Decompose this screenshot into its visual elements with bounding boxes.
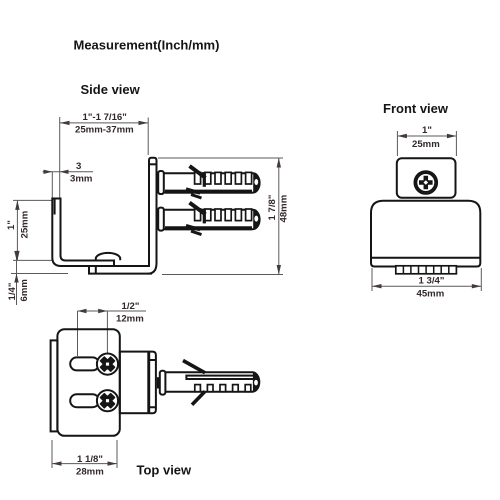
anchor1 slot 6 [246,172,252,184]
front screw phillips cross [419,176,433,190]
arrow left of top dim [60,121,70,125]
dim 1 1/8"/28mm line [52,463,117,465]
anchor2 bottom thick edge [165,226,252,230]
svg-text:6mm: 6mm [19,279,30,301]
extension line left of top dim [59,117,61,198]
anchor1 wing diagonal [190,166,206,178]
arrow right 28mm [108,461,118,465]
svg-text:1 7/8": 1 7/8" [267,195,278,221]
front rib comb band [396,266,457,274]
extension right 28mm [116,440,118,468]
arrow right 25mm [447,134,457,138]
arrow up 1" [15,200,19,210]
anchor2 slot 5 [235,209,241,221]
top anchor nub [157,377,160,388]
arrow left 28mm [52,461,62,465]
svg-text:3: 3 [76,161,81,172]
arrow 12mm right [98,309,107,313]
front upper box [397,158,456,198]
dim top width line [60,122,148,124]
dim 1/2"/12mm line [78,310,147,312]
svg-text:1"-1 7/16": 1"-1 7/16" [83,112,127,123]
extension line foot bottom [11,273,68,275]
svg-text:1 1/8": 1 1/8" [77,454,103,465]
svg-text:1 3/4": 1 3/4" [419,276,445,287]
extension left 28mm [51,440,53,468]
anchor1 screw head bar [158,171,164,194]
svg-text:Top view: Top view [137,463,193,478]
top anchor notch 4 [233,385,239,392]
top anchor tip white dot [254,380,258,386]
anchor2 tip cap [253,209,260,230]
extension right 25mm [455,131,457,156]
svg-text:25mm: 25mm [20,211,31,239]
top anchor notch 1 [195,385,201,392]
arrow 3mm left [44,170,53,174]
top view cap [149,352,156,414]
anchor1 lower wing [186,189,200,193]
svg-text:Measurement(Inch/mm): Measurement(Inch/mm) [74,38,220,53]
dim 3mm line [43,171,94,173]
anchor1 bottom thick edge [165,190,252,194]
wall vertical plate [148,158,157,274]
anchor 2 group [156,203,261,235]
anchor2 slot 6 [246,209,252,221]
extension line base top left [13,259,52,261]
screw dome on base [96,253,120,260]
extension 12mm left [77,311,79,356]
anchor1 tip cap [253,173,260,194]
dim 1 7/8"/48mm vertical line [278,158,280,275]
wall top cap line [149,163,157,165]
front rib divider 7 [448,266,450,274]
anchor2 screw head bar [158,208,164,231]
anchor2 slot 3 [215,209,221,221]
dim 1"/25mm line [397,135,456,137]
extension left 25mm [396,131,398,156]
arrow down to base top [14,251,18,260]
anchor1 nub [156,177,159,188]
anchor1 slot 4 [225,172,231,184]
top anchor notch 2 [207,385,213,392]
anchor1 tip white dot [254,179,258,185]
anchor2 tip white dot [254,216,258,222]
top anchor notch 5 [245,385,251,392]
top view main plate [57,329,119,436]
top screw 2 circle [97,390,118,411]
top anchor body [165,372,259,391]
anchor1 slot 2 [205,172,211,184]
top anchor inner stripe [186,376,256,379]
anchor2 slot 2 [205,209,211,221]
svg-text:1": 1" [6,220,17,230]
extension line bottom foot to dim [162,274,283,276]
svg-text:Front view: Front view [383,101,449,116]
arrow 12mm left [78,309,87,313]
top anchor lower wing [192,391,205,404]
arrow left 45mm [372,284,382,288]
arrow 3mm right [60,170,69,174]
arrow right 45mm [472,284,482,288]
svg-text:12mm: 12mm [116,314,144,325]
anchor1 body [164,173,260,192]
front rib divider 5 [433,266,435,274]
top screw 1 cross [97,354,117,374]
front body [371,201,480,267]
front rib divider 4 [425,266,427,274]
anchor2 slot 1 [195,209,201,221]
front screw center notch [424,180,429,185]
front rib divider 1 [402,266,404,274]
top screw 1 circle [97,354,118,375]
arrow down 1" [15,251,19,261]
extension left 45mm [371,268,373,291]
svg-text:25mm: 25mm [412,139,440,150]
top anchor tip cap [253,372,260,393]
top view boss [120,352,149,414]
front screw outer circle [415,171,438,194]
svg-text:1": 1" [422,125,432,136]
svg-text:Side view: Side view [81,82,141,97]
arrow up to foot bottom [14,274,18,283]
svg-text:45mm: 45mm [417,289,445,300]
extension line top of wall to dim [158,157,283,159]
anchor2 lower wing [186,226,200,230]
front rib divider 3 [418,266,420,274]
top screw 2 cross [97,391,117,411]
plate inner edge [61,198,115,267]
extension line 3mm [51,172,53,198]
svg-text:1/2": 1/2" [122,301,140,312]
anchor1 lower fin [191,195,202,199]
top anchor notch 3 [220,385,226,392]
svg-text:25mm-37mm: 25mm-37mm [75,125,134,136]
extension line top plate [13,199,52,201]
svg-text:3mm: 3mm [70,174,92,185]
L-bracket left plate [52,199,89,267]
anchor2 wing bar [203,209,206,224]
front body bottom band line [371,257,480,259]
dim 1 3/4"/45mm line [372,285,481,287]
dim 1/4"/6mm line [16,252,18,305]
arrow left 25mm [397,134,407,138]
extension line right of top dim [147,118,149,156]
anchor1 slot 5 [235,172,241,184]
arrow down 48mm [277,265,281,275]
svg-text:28mm: 28mm [76,466,104,477]
top view slot 1 [70,357,99,370]
anchor 1 group [156,166,261,198]
foot lower strip [89,266,152,274]
top view left flange [51,340,58,431]
top view slot 2 [70,394,99,407]
anchor1 wing bar [203,172,206,187]
top anchor head bar [160,371,166,395]
arrow right of top dim [139,121,149,125]
anchor2 lower fin [191,231,202,235]
anchor1 slot 1 [195,172,201,184]
anchor2 body [164,210,260,229]
svg-text:48mm: 48mm [279,195,290,223]
anchor2 nub [156,213,159,224]
top anchor upper wing [183,361,205,373]
extension right 45mm [480,268,482,291]
anchor2 wing diagonal [190,203,206,215]
top view cap inner lines [149,360,155,407]
front rib divider 6 [440,266,442,274]
anchor2 slot 4 [225,209,231,221]
anchor1 slot 3 [215,172,221,184]
extension 12mm right [106,311,108,353]
foot left end cap [95,266,97,274]
svg-text:1/4": 1/4" [7,283,18,301]
dim 1"/25mm vertical line [16,200,18,260]
front rib divider 2 [410,266,412,274]
plate hem line [54,200,56,215]
front screw inner circle [416,173,435,192]
arrow up 48mm [277,158,281,168]
